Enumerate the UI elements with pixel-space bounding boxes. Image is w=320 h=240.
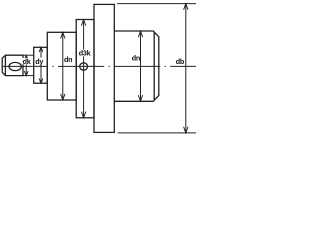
hole circle on pitch line xyxy=(80,63,88,70)
svg-text:dn: dn xyxy=(132,54,140,63)
label db xyxy=(175,58,183,65)
centerline xyxy=(2,65,196,67)
dimension dy xyxy=(39,47,43,83)
washer xyxy=(34,47,48,83)
dimension dn left xyxy=(61,32,65,100)
dimension d3k xyxy=(81,20,85,118)
svg-text:d3k: d3k xyxy=(79,49,91,58)
label dn (right) xyxy=(131,54,140,61)
label dy xyxy=(35,58,44,65)
svg-text:db: db xyxy=(176,57,185,66)
dimension dn right xyxy=(138,31,142,101)
label d3k xyxy=(78,50,91,57)
svg-text:dn: dn xyxy=(64,55,72,64)
dimension db xyxy=(117,4,196,133)
ring xyxy=(76,20,94,118)
bolt head xyxy=(2,55,23,75)
svg-text:dy: dy xyxy=(35,57,43,66)
label dk xyxy=(22,58,30,64)
label dn (left) xyxy=(64,56,73,63)
flange xyxy=(94,4,114,132)
right cylinder xyxy=(114,31,159,101)
hub xyxy=(47,32,76,100)
dimension dk xyxy=(23,55,34,75)
svg-text:dk: dk xyxy=(23,57,31,66)
